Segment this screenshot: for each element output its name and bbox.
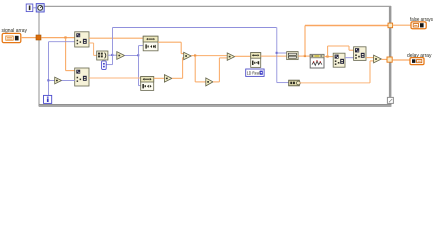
wire: bottom rail to D lower [300, 61, 375, 83]
wire: waveform out to N5 [324, 56, 333, 58]
node F1: rotate array sub VI [143, 36, 158, 51]
wire: constant 2 stub [106, 64, 113, 66]
control terminal: signal array [2, 33, 21, 42]
node U2: Index Array (top) [75, 32, 89, 47]
indicator terminal: false arrays [411, 22, 426, 29]
junction blue at x138.5 [137, 54, 139, 56]
node F2: rotate array sub VI [141, 77, 154, 91]
wire: build array out [298, 55, 310, 57]
wire: F1 out [158, 42, 184, 53]
wire: tunnel to delay array terminal [392, 59, 410, 61]
junction blue at i wire [47, 79, 49, 81]
label box: 1D Real [246, 69, 264, 76]
wire: blue riser to top rail [112, 28, 114, 56]
node: Array Size [97, 51, 108, 60]
triangle T1 (quotient) [117, 52, 125, 60]
triangle C (add) [227, 53, 235, 60]
numeric constant 2 [102, 61, 107, 69]
wire: blue rail down right side [276, 28, 278, 83]
tunnel: right delay (indexing) [387, 57, 392, 62]
tunnel: top right (indexing) [388, 23, 393, 28]
wire: junction to increment triangle [49, 80, 56, 82]
wire: N6 out to D [366, 57, 374, 59]
junction blue at build array [276, 52, 278, 54]
node: initialize array [289, 80, 301, 86]
wire: tunnel to Index Array (main) [42, 37, 76, 39]
junction orange at A out [194, 54, 196, 56]
wire: N5 out to N6 (blue) [345, 57, 354, 59]
junction orange [304, 55, 306, 57]
junction on main wire [64, 36, 66, 38]
wire: up to F1 lower input [139, 46, 144, 56]
loop corner grip [387, 97, 393, 103]
svg-text:1D Real: 1D Real [247, 70, 260, 75]
wire: U3 out to F2 [89, 77, 141, 79]
junction orange at bridge [326, 55, 328, 57]
triangle D (build array/add) [374, 55, 382, 63]
wire: B out up to C lower [213, 58, 227, 82]
wire: U2 second out down to Array Size [89, 43, 97, 55]
wire: F2 out to T3 [154, 77, 165, 79]
node: build waveform [310, 54, 324, 68]
wire: bridge up and over to N6 [328, 46, 354, 57]
wire constant to wait function [33, 7, 36, 9]
triangle A (multiply) [184, 52, 192, 59]
numeric constant (wait ms) [26, 4, 33, 12]
wire: D out to tunnel [381, 58, 387, 60]
wire: down to F2 lower input [139, 56, 142, 86]
triangle T3 (multiply) [164, 75, 172, 82]
triangle B (add array elements) [206, 78, 213, 86]
wire: T2 out to U3 [62, 80, 75, 82]
tunnel (left loop border) [36, 35, 41, 40]
wire: signal array to tunnel [21, 37, 36, 39]
indicator terminal: delay array [410, 58, 424, 65]
wire: A out to C upper [191, 55, 227, 57]
while loop border [38, 6, 391, 107]
wait until next ms multiple U1 [36, 4, 44, 12]
wire: C out to convert node [235, 55, 251, 57]
junction blue [111, 54, 113, 56]
wire: Array Size out to multiply T1 [108, 54, 117, 56]
triangle T2 (increment) [55, 77, 62, 84]
node N5: index array (small) [333, 53, 345, 67]
iteration terminal i [44, 95, 52, 103]
wire: blue down from junction to constant stub [112, 55, 114, 64]
wire: T1 out to junction [125, 55, 139, 57]
node N6: replace array subset [354, 47, 366, 61]
wire: i terminal up to Index Array U2 [49, 42, 76, 95]
wire: top blue rail [113, 27, 277, 29]
node: build array [287, 52, 298, 60]
wire: tunnel to false arrays terminal [393, 24, 412, 26]
node U3: Index Array (lower) [75, 68, 89, 86]
wire: U2 out to F1 [89, 37, 144, 39]
wire: convert out to build array [261, 55, 287, 57]
wire: top orange rail to tunnel [305, 25, 389, 27]
wire: stub to build array upper [277, 52, 287, 54]
wire: blue to initialize array [277, 82, 289, 84]
wire: branch down to lower Index Array [66, 38, 75, 71]
wire: riser to top orange rail [304, 26, 306, 57]
wire: drop to B [195, 56, 206, 82]
node: convert sub VI (1D Real) [251, 53, 261, 68]
wire: T3 out up to A lower input [172, 58, 184, 79]
